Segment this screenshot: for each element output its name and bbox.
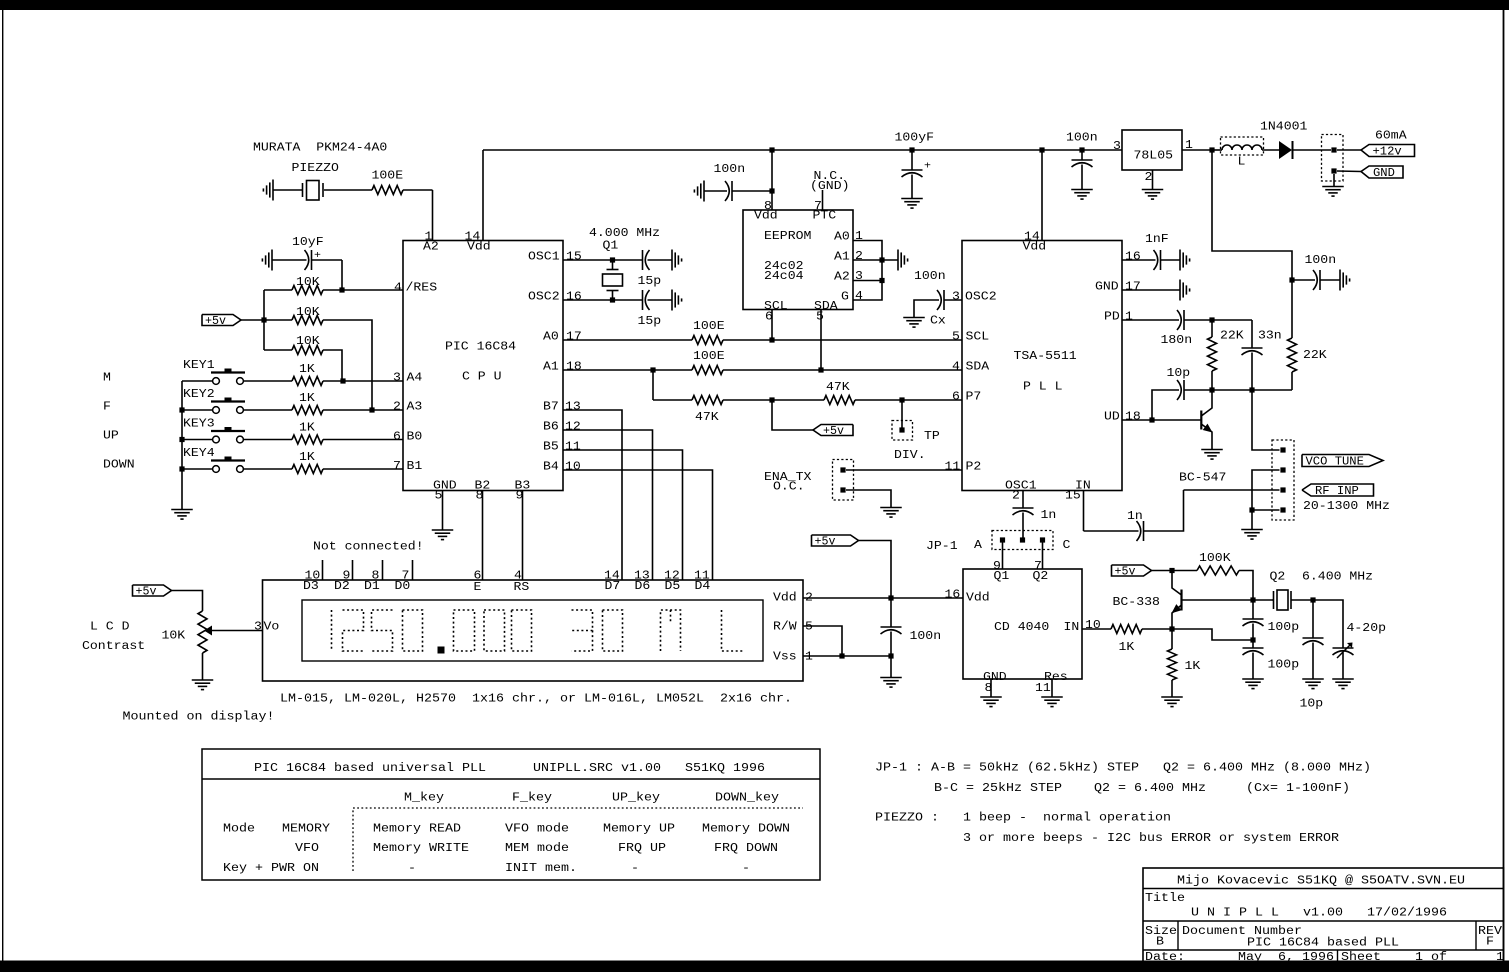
wire B2 to LCD E bbox=[482, 491, 484, 581]
wire B5 to LCD D5 bbox=[563, 450, 683, 580]
LCD pin 2 Vdd wire bbox=[803, 597, 891, 599]
svg-text:100yF: 100yF bbox=[895, 132, 935, 145]
svg-text:JP-1 : A-B = 50kHz (62.5kHz) S: JP-1 : A-B = 50kHz (62.5kHz) STEP Q2 = 6… bbox=[875, 762, 1371, 775]
svg-text:5: 5 bbox=[952, 331, 960, 344]
svg-text:100n: 100n bbox=[714, 163, 746, 176]
LCD decimal point bbox=[438, 647, 445, 654]
ground at J3 bbox=[880, 507, 902, 509]
svg-text:Vss: Vss bbox=[773, 651, 797, 664]
svg-text:10K: 10K bbox=[162, 630, 186, 643]
svg-text:BC-338: BC-338 bbox=[1113, 596, 1160, 609]
svg-text:10: 10 bbox=[565, 461, 581, 474]
svg-text:B6: B6 bbox=[543, 421, 559, 434]
svg-text:47K: 47K bbox=[695, 411, 719, 424]
LCD digit 0 (third) bbox=[484, 610, 505, 651]
connector tag VCO TUNE bbox=[1302, 455, 1383, 467]
svg-text:F: F bbox=[103, 401, 111, 414]
crystal Q2 bbox=[1272, 599, 1274, 601]
key ground bus bbox=[181, 381, 183, 509]
ground at CD4040 pin 8 bbox=[980, 696, 1002, 698]
wire +5v tag to 10K bus bbox=[241, 319, 292, 321]
svg-text:D6: D6 bbox=[635, 580, 651, 593]
wire 1n to RF INP line bbox=[1144, 490, 1184, 531]
LCD pin 8 D1 (n.c.) bbox=[382, 560, 384, 580]
svg-text:Q2: Q2 bbox=[1270, 571, 1286, 584]
svg-text:KEY2: KEY2 bbox=[183, 388, 215, 401]
power tag +5v (contrast) bbox=[133, 585, 172, 596]
svg-text:1K: 1K bbox=[1119, 641, 1135, 654]
svg-text:-: - bbox=[631, 862, 639, 875]
wire B4 to LCD D4 bbox=[563, 470, 713, 580]
svg-text:P L L: P L L bbox=[1023, 381, 1063, 394]
connector tag +12v bbox=[1337, 149, 1361, 151]
connector tag GND (input) bbox=[1337, 170, 1361, 173]
svg-text:May 6, 1996: May 6, 1996 bbox=[1238, 951, 1334, 964]
ground at BC-547 emitter bbox=[1201, 449, 1223, 451]
svg-text:47K: 47K bbox=[826, 381, 850, 394]
svg-text:Sheet: Sheet bbox=[1341, 951, 1381, 964]
svg-text:1K: 1K bbox=[299, 363, 315, 376]
piezzo transducer LS1 bbox=[302, 183, 304, 197]
wire B3 to LCD RS bbox=[522, 491, 524, 581]
svg-text:22K: 22K bbox=[1303, 349, 1327, 362]
svg-text:PIC 16C84: PIC 16C84 bbox=[445, 341, 516, 354]
svg-text:UNIPLL.SRC v1.00: UNIPLL.SRC v1.00 bbox=[533, 762, 661, 775]
wire piezzo to R 100E bbox=[324, 189, 372, 191]
ground at 4-20p bbox=[1332, 678, 1354, 680]
wire J1 pin2 to ground bbox=[1333, 174, 1335, 187]
IC U2 EEPROM 24c02/24c04 body bbox=[743, 210, 853, 310]
svg-text:GND: GND bbox=[1095, 281, 1119, 294]
LCD display window bbox=[302, 600, 763, 661]
IC U5 CD 4040 body bbox=[963, 569, 1082, 679]
LCD digit 3 bbox=[572, 610, 593, 631]
wire J2 pin4 ground link bbox=[1252, 509, 1280, 511]
svg-text:D4: D4 bbox=[695, 580, 711, 593]
svg-text:33n: 33n bbox=[1258, 330, 1282, 343]
svg-text:Mode: Mode bbox=[223, 823, 255, 836]
svg-text:18: 18 bbox=[566, 361, 582, 374]
svg-text:Vdd: Vdd bbox=[754, 210, 778, 223]
ground at key bus bbox=[171, 509, 193, 511]
svg-text:A2: A2 bbox=[834, 271, 850, 284]
wire +5v to Vdd column bbox=[859, 541, 892, 599]
svg-text:3: 3 bbox=[1113, 140, 1121, 153]
svg-text:Title: Title bbox=[1145, 892, 1185, 905]
svg-text:M_key: M_key bbox=[404, 792, 444, 805]
wire +12v branch down bbox=[1212, 150, 1292, 280]
svg-text:100n: 100n bbox=[1305, 254, 1337, 267]
svg-text:GND: GND bbox=[1373, 167, 1395, 180]
svg-text:UP: UP bbox=[103, 430, 119, 443]
wire 10K bus vertical bbox=[263, 290, 265, 350]
svg-text:B1: B1 bbox=[407, 460, 423, 473]
svg-text:M: M bbox=[103, 372, 111, 385]
ground at emitter 1K bbox=[1161, 696, 1183, 698]
svg-text:5: 5 bbox=[816, 311, 824, 324]
svg-text:100E: 100E bbox=[693, 320, 725, 333]
LCD pin 7 D0 (n.c.) bbox=[412, 560, 414, 580]
svg-text:IN: IN bbox=[1064, 621, 1080, 634]
test point TP DIV. bbox=[901, 400, 903, 430]
wire VCO tune to J2 pin1 bbox=[1252, 390, 1280, 450]
svg-text:PIC 16C84 based PLL: PIC 16C84 based PLL bbox=[1247, 937, 1399, 950]
svg-text:100n: 100n bbox=[914, 270, 946, 283]
svg-text:B5: B5 bbox=[543, 441, 559, 454]
svg-text:EEPROM: EEPROM bbox=[764, 230, 811, 243]
svg-text:1K: 1K bbox=[1185, 660, 1201, 673]
IC U4 TSA-5511 PLL body bbox=[962, 241, 1122, 491]
PIC pin 14 Vdd (top) bbox=[482, 150, 484, 241]
LCD pin 5 R/W wire bbox=[803, 626, 842, 656]
svg-text:B7: B7 bbox=[543, 401, 559, 414]
svg-text:LM-015, LM-020L, H2570 1x16 c: LM-015, LM-020L, H2570 1x16 chr., or LM-… bbox=[280, 693, 792, 706]
svg-text:Memory WRITE: Memory WRITE bbox=[373, 842, 469, 855]
svg-text:1N4001: 1N4001 bbox=[1260, 121, 1307, 134]
wire 78L05 out to inductor bbox=[1212, 149, 1222, 151]
svg-text:22K: 22K bbox=[1220, 330, 1244, 343]
svg-text:Cx: Cx bbox=[930, 315, 946, 328]
ground at CD4040 pin 11 bbox=[1041, 696, 1063, 698]
svg-text:Vdd: Vdd bbox=[1023, 241, 1047, 254]
svg-text:L C D: L C D bbox=[90, 621, 130, 634]
svg-text:3: 3 bbox=[952, 291, 960, 304]
svg-text:PTC: PTC bbox=[813, 210, 837, 223]
svg-text:2: 2 bbox=[1012, 490, 1020, 503]
svg-text:11: 11 bbox=[945, 461, 961, 474]
svg-text:2: 2 bbox=[855, 250, 863, 263]
PIC pin 4 /RES bbox=[372, 289, 403, 291]
svg-text:C: C bbox=[1063, 539, 1071, 552]
svg-text:RF INP: RF INP bbox=[1315, 485, 1359, 498]
diode D 1N4001 bbox=[1279, 141, 1292, 159]
ground at 100n VCO bbox=[1339, 270, 1341, 291]
TSA P2 wire bbox=[846, 469, 962, 471]
wire VCO tune node bbox=[1184, 389, 1292, 391]
svg-text:Date:: Date: bbox=[1145, 951, 1185, 964]
svg-text:100n: 100n bbox=[1066, 132, 1098, 145]
power tag +5v (display supply) bbox=[812, 535, 859, 546]
CD4040 pin 16 Vdd bbox=[891, 597, 963, 599]
svg-text:3: 3 bbox=[393, 372, 401, 385]
svg-text:Mounted on display!: Mounted on display! bbox=[123, 711, 275, 724]
svg-text:78L05: 78L05 bbox=[1134, 150, 1174, 163]
LCD letter M bbox=[661, 610, 681, 651]
svg-text:1K: 1K bbox=[299, 422, 315, 435]
svg-text:OSC2: OSC2 bbox=[965, 291, 997, 304]
svg-text:PIC 16C84 based universal PLL: PIC 16C84 based universal PLL bbox=[254, 762, 486, 775]
svg-text:D3: D3 bbox=[303, 580, 319, 593]
PIC pin 5 GND (bottom) bbox=[442, 491, 444, 531]
svg-text:SDA: SDA bbox=[966, 361, 990, 374]
svg-text:FRQ UP: FRQ UP bbox=[618, 842, 666, 855]
LCD digit 1 bbox=[331, 610, 333, 651]
ground at 100p lower bbox=[1242, 678, 1264, 680]
svg-text:F_key: F_key bbox=[512, 792, 552, 805]
svg-text:A0: A0 bbox=[543, 331, 559, 344]
svg-text:11: 11 bbox=[1035, 682, 1051, 695]
svg-text:1: 1 bbox=[805, 651, 813, 664]
wire emitter node to 100p junction bbox=[1172, 629, 1252, 640]
svg-text:16: 16 bbox=[566, 291, 582, 304]
svg-text:10: 10 bbox=[1085, 619, 1101, 632]
svg-text:15p: 15p bbox=[638, 275, 662, 288]
inductor L bbox=[1221, 137, 1264, 155]
wire IN to 1n bbox=[1084, 530, 1139, 532]
svg-text:F: F bbox=[1486, 936, 1494, 949]
svg-text:Memory UP: Memory UP bbox=[603, 823, 675, 836]
ground at J2 bbox=[1241, 529, 1263, 531]
svg-text:G: G bbox=[841, 291, 849, 304]
LCD letter L bbox=[722, 610, 743, 651]
svg-text:B0: B0 bbox=[407, 431, 423, 444]
svg-text:L: L bbox=[1238, 156, 1246, 169]
svg-text:PD: PD bbox=[1104, 311, 1120, 324]
ground at 78L05 pin 2 bbox=[1142, 189, 1164, 191]
svg-text:D7: D7 bbox=[605, 580, 621, 593]
svg-text:16: 16 bbox=[945, 589, 961, 602]
svg-text:DIV.: DIV. bbox=[894, 449, 926, 462]
IC U1 PIC 16C84 CPU body bbox=[403, 241, 563, 491]
wire B6 to LCD D6 bbox=[563, 430, 653, 580]
svg-text:Vdd: Vdd bbox=[467, 241, 491, 254]
svg-text:OSC1: OSC1 bbox=[528, 251, 560, 264]
wire A1 to 47K row bbox=[652, 370, 654, 400]
ground at display decoupling bbox=[880, 677, 902, 679]
TSA pin 16 wire bbox=[1122, 259, 1156, 261]
svg-text:10p: 10p bbox=[1300, 698, 1324, 711]
svg-text:VFO mode: VFO mode bbox=[505, 823, 569, 836]
svg-text:OSC1: OSC1 bbox=[1005, 480, 1037, 493]
wire B7 to LCD D7 bbox=[563, 410, 622, 580]
svg-text:4: 4 bbox=[394, 282, 402, 295]
svg-text:TSA-5511: TSA-5511 bbox=[1014, 350, 1077, 363]
ground at 15p OSC1 bbox=[671, 250, 673, 271]
wire JP-1 C to CD4040 Q2 bbox=[1042, 540, 1044, 569]
svg-text:O.C.: O.C. bbox=[773, 481, 805, 494]
power tag +5v (keys) bbox=[202, 315, 241, 326]
wire SCL A0 line bbox=[563, 339, 692, 341]
TSA pin 1 PD wire bbox=[1122, 319, 1179, 321]
LCD pin 10 D3 (n.c.) bbox=[322, 560, 324, 580]
TSA pin 14 Vdd (top) bbox=[1041, 150, 1043, 241]
table key functions bbox=[202, 749, 820, 880]
svg-text:P7: P7 bbox=[966, 391, 982, 404]
svg-text:2: 2 bbox=[1145, 171, 1153, 184]
svg-text:KEY4: KEY4 bbox=[183, 447, 215, 460]
svg-text:(GND): (GND) bbox=[810, 180, 850, 193]
wire Vdd rail bbox=[483, 149, 1122, 151]
power tag +5v (P7 pull-up) bbox=[772, 400, 813, 430]
wire diode to connector J1 bbox=[1294, 149, 1332, 151]
svg-text:Memory DOWN: Memory DOWN bbox=[702, 823, 790, 836]
svg-text:6.400 MHz: 6.400 MHz bbox=[1302, 571, 1373, 584]
PIC pin 16 OSC2 bbox=[563, 299, 643, 301]
ground at Cx bbox=[903, 317, 925, 319]
svg-text:KEY3: KEY3 bbox=[183, 418, 215, 431]
svg-text:KEY1: KEY1 bbox=[183, 359, 215, 372]
svg-text:C P U: C P U bbox=[462, 371, 502, 384]
svg-text:18: 18 bbox=[1125, 411, 1141, 424]
svg-text:A4: A4 bbox=[407, 372, 423, 385]
connector tag RF INP bbox=[1302, 484, 1374, 496]
ground at 100n input cap bbox=[1071, 189, 1093, 191]
svg-text:CD 4040: CD 4040 bbox=[994, 621, 1049, 634]
svg-text:180n: 180n bbox=[1161, 334, 1193, 347]
svg-text:1nF: 1nF bbox=[1145, 233, 1169, 246]
svg-text:12: 12 bbox=[565, 421, 581, 434]
svg-text:5: 5 bbox=[435, 490, 443, 503]
svg-text:1 of: 1 of bbox=[1415, 951, 1447, 964]
svg-text:E: E bbox=[474, 581, 482, 594]
PIC pin 1 A2 (top) bbox=[432, 190, 434, 241]
svg-text:Q1: Q1 bbox=[603, 240, 619, 253]
wire R100E to PIC pin1 A2 bbox=[403, 189, 433, 191]
svg-text:4: 4 bbox=[855, 290, 863, 303]
svg-text:A0: A0 bbox=[834, 231, 850, 244]
ground at 100yF bbox=[901, 198, 923, 200]
svg-text:10yF: 10yF bbox=[292, 236, 324, 249]
svg-text:6: 6 bbox=[952, 391, 960, 404]
svg-text:FRQ DOWN: FRQ DOWN bbox=[714, 842, 778, 855]
svg-text:P2: P2 bbox=[966, 461, 982, 474]
svg-text:100p: 100p bbox=[1268, 659, 1300, 672]
svg-text:+: + bbox=[924, 162, 931, 173]
svg-text:BC-547: BC-547 bbox=[1179, 472, 1226, 485]
svg-text:+5v: +5v bbox=[823, 425, 844, 438]
svg-text:1n: 1n bbox=[1041, 509, 1057, 522]
LCD digit 0 (first) bbox=[403, 610, 423, 651]
svg-text:UD: UD bbox=[1104, 411, 1120, 424]
svg-text:17: 17 bbox=[1125, 281, 1141, 294]
wire inductor to diode bbox=[1262, 149, 1279, 151]
svg-text:-: - bbox=[408, 862, 416, 875]
svg-text:UP_key: UP_key bbox=[612, 792, 660, 805]
IC U3 78L05 regulator bbox=[1122, 130, 1182, 170]
connector J2 VCO bbox=[1272, 440, 1294, 520]
wire ground to piezzo bbox=[273, 189, 303, 191]
svg-text:Mijo Kovacevic S51KQ @ S5OATV.: Mijo Kovacevic S51KQ @ S5OATV.SVN.EU bbox=[1177, 875, 1465, 888]
svg-text:4: 4 bbox=[952, 361, 960, 374]
ground at contrast pot bbox=[192, 679, 214, 681]
LCD digit 5 bbox=[372, 610, 393, 651]
wire BC-338 base bbox=[1182, 599, 1254, 601]
svg-text:PIEZZO: PIEZZO bbox=[292, 162, 339, 175]
svg-text:Q1: Q1 bbox=[994, 570, 1010, 583]
svg-text:100K: 100K bbox=[1199, 552, 1231, 565]
svg-text:+5v: +5v bbox=[1115, 566, 1136, 579]
svg-text:RS: RS bbox=[514, 581, 530, 594]
svg-text:13: 13 bbox=[565, 401, 581, 414]
svg-text:MEM mode: MEM mode bbox=[505, 842, 569, 855]
svg-text:4-20p: 4-20p bbox=[1347, 622, 1387, 635]
LCD digit 2 bbox=[343, 610, 364, 651]
svg-text:+12v: +12v bbox=[1373, 146, 1402, 159]
LCD module body bbox=[263, 580, 804, 681]
LCD digit 0 (fourth) bbox=[512, 610, 532, 651]
svg-text:17: 17 bbox=[566, 331, 582, 344]
svg-text:A2: A2 bbox=[423, 241, 439, 254]
svg-text:MURATA PKM24-4A0: MURATA PKM24-4A0 bbox=[253, 142, 387, 155]
svg-text:SCL: SCL bbox=[966, 331, 990, 344]
svg-text:Vo: Vo bbox=[264, 621, 280, 634]
LCD pin 9 D2 (n.c.) bbox=[352, 560, 354, 580]
78L05 pin 1 output wire bbox=[1182, 149, 1212, 151]
svg-text:-: - bbox=[742, 862, 750, 875]
svg-text:1K: 1K bbox=[299, 451, 315, 464]
svg-text:7: 7 bbox=[393, 460, 401, 473]
svg-text:INIT mem.: INIT mem. bbox=[505, 862, 577, 875]
svg-text:VCO TUNE: VCO TUNE bbox=[1306, 456, 1364, 469]
ground at EEPROM A1/A2 bbox=[897, 250, 899, 271]
svg-text:TP: TP bbox=[924, 430, 940, 443]
svg-text:10p: 10p bbox=[1167, 367, 1191, 380]
svg-text:100E: 100E bbox=[372, 170, 404, 183]
svg-text:D5: D5 bbox=[665, 580, 681, 593]
CD4040 pin 10 IN wire bbox=[1082, 628, 1111, 630]
ground at 10p bbox=[1302, 678, 1324, 680]
svg-text:60mA: 60mA bbox=[1375, 130, 1407, 143]
svg-text:S51KQ 1996: S51KQ 1996 bbox=[685, 762, 765, 775]
svg-text:Vdd: Vdd bbox=[773, 592, 797, 605]
svg-text:+5v: +5v bbox=[815, 536, 836, 549]
svg-text:100n: 100n bbox=[910, 630, 942, 643]
ground at piezzo bbox=[272, 180, 274, 201]
svg-text:1: 1 bbox=[1496, 951, 1504, 964]
svg-text:1: 1 bbox=[1125, 311, 1133, 324]
svg-text:B-C = 25kHz STEP Q2 = 6.400: B-C = 25kHz STEP Q2 = 6.400 MHz (Cx= 1-1… bbox=[934, 782, 1350, 795]
svg-text:11: 11 bbox=[565, 441, 581, 454]
svg-text:DOWN: DOWN bbox=[103, 459, 135, 472]
svg-text:MEMORY: MEMORY bbox=[282, 823, 330, 836]
svg-text:1n: 1n bbox=[1127, 510, 1143, 523]
svg-text:4.000 MHz: 4.000 MHz bbox=[589, 227, 660, 240]
svg-text:Contrast: Contrast bbox=[82, 640, 145, 653]
svg-text:Not connected!: Not connected! bbox=[313, 541, 424, 554]
wire JP-1 A to CD4040 Q1 bbox=[1002, 540, 1004, 569]
svg-text:15: 15 bbox=[566, 251, 582, 264]
TSA pin 17 GND bbox=[1122, 289, 1180, 291]
svg-text:U N I P L L v1.00 17/02/19: U N I P L L v1.00 17/02/1996 bbox=[1191, 907, 1447, 920]
wire SDA A1 line bbox=[563, 369, 692, 371]
TSA pin 18 UD wire bbox=[1122, 419, 1201, 421]
svg-text:Memory READ: Memory READ bbox=[373, 823, 461, 836]
ground at PIC pin 5 bbox=[432, 529, 454, 531]
svg-text:100p: 100p bbox=[1268, 621, 1300, 634]
svg-text:16: 16 bbox=[1125, 251, 1141, 264]
EEPROM pin 7 PTC (N.C.) bbox=[822, 190, 824, 210]
wire RF INP line to J2 pin3 bbox=[1184, 489, 1280, 491]
svg-text:2: 2 bbox=[805, 592, 813, 605]
svg-text:24c04: 24c04 bbox=[764, 270, 804, 283]
svg-text:JP-1: JP-1 bbox=[926, 540, 958, 553]
svg-text:20-1300 MHz: 20-1300 MHz bbox=[1303, 500, 1390, 513]
LCD digit 0 (fifth) bbox=[603, 610, 623, 651]
svg-text:+5v: +5v bbox=[136, 586, 157, 599]
svg-text:A1: A1 bbox=[543, 361, 559, 374]
ground at 1nF bbox=[1179, 250, 1181, 271]
svg-text:A3: A3 bbox=[407, 401, 423, 414]
wire J3 pin2 to ground bbox=[846, 490, 891, 507]
connector J1 +12v input bbox=[1322, 135, 1344, 182]
svg-text:+5v: +5v bbox=[205, 315, 226, 328]
svg-text:VFO: VFO bbox=[295, 842, 319, 855]
svg-text:A: A bbox=[974, 539, 982, 552]
svg-text:B4: B4 bbox=[543, 461, 559, 474]
svg-text:100E: 100E bbox=[693, 350, 725, 363]
ground at J1 bbox=[1322, 186, 1344, 188]
svg-text:/RES: /RES bbox=[406, 282, 438, 295]
